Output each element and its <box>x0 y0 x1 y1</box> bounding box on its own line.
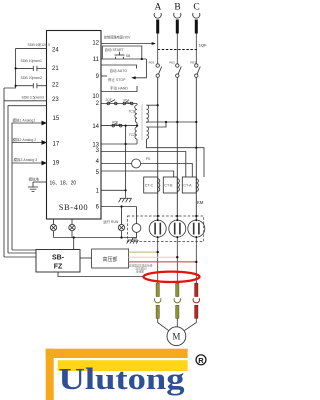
capacitor pwm2 <box>16 85 34 87</box>
svg-text:R06: R06 <box>112 120 118 124</box>
box high-voltage unit <box>92 249 129 268</box>
wire HV yellow to phase B <box>129 256 178 258</box>
lamp out1 under SB-400 <box>50 219 56 238</box>
wire outer vertical 1 <box>3 88 5 257</box>
wire jog bus to outer vertical <box>4 86 16 88</box>
svg-text:模拟3 Analog 3: 模拟3 Analog 3 <box>14 157 38 162</box>
fuse element phase C (red) <box>193 283 199 318</box>
main controller box SB-400 <box>47 31 102 220</box>
svg-text:CT-B: CT-B <box>164 183 173 187</box>
wire analog1 line <box>12 123 47 250</box>
svg-text:Ulutong: Ulutong <box>59 361 186 396</box>
svg-text:接线图: 接线图 <box>136 269 144 273</box>
breaker pole labels <box>149 60 197 64</box>
wire down to SB-FZ <box>73 238 75 250</box>
svg-text:运行 RUN: 运行 RUN <box>103 219 119 224</box>
circuit schematic with company logo <box>0 0 208 400</box>
svg-text:模拟2 Analog 2: 模拟2 Analog 2 <box>13 137 37 142</box>
contactor pole B <box>169 220 186 237</box>
box SB-FZ <box>36 250 80 273</box>
tiny annotation text <box>129 264 153 274</box>
svg-text:控制回路电源220V: 控制回路电源220V <box>104 35 131 40</box>
wire pin9 stub <box>101 75 107 77</box>
svg-text:11: 11 <box>93 57 100 63</box>
CT-C box <box>144 177 160 193</box>
transformer core <box>141 104 142 140</box>
breaker 2QF <box>107 100 117 105</box>
fuse bar A <box>156 20 159 34</box>
logo orange F vertical bar <box>46 349 54 400</box>
terminal clip A <box>154 13 161 18</box>
svg-text:14: 14 <box>92 124 99 130</box>
arrow pin12 <box>152 42 156 45</box>
fuse element phase A (olive) <box>155 283 161 318</box>
wire SB-FZ bottom run <box>58 272 143 277</box>
capacitor pwm1 <box>16 67 34 69</box>
wire pin2 line <box>101 103 137 105</box>
PS indicator <box>132 159 141 168</box>
fuse bar C <box>195 20 198 34</box>
wire SB-FZ to HV box <box>80 257 92 259</box>
svg-text:R03: R03 <box>190 60 196 64</box>
wire auto line <box>101 65 137 69</box>
wire pin13 line <box>101 143 137 145</box>
wire pin6 line <box>101 206 137 208</box>
svg-text:CT-A: CT-A <box>183 183 192 187</box>
wire down to KM coil <box>136 207 138 224</box>
breaker pole A <box>156 64 162 78</box>
svg-text:1QF: 1QF <box>199 43 207 48</box>
wire HV yellow-green to phase A <box>129 251 158 253</box>
arrow analog3 <box>42 161 48 166</box>
phase lines below contactor <box>158 237 197 283</box>
transformer TC2 <box>135 126 149 144</box>
svg-text:模拟1 Analog1: 模拟1 Analog1 <box>13 117 36 122</box>
svg-text:自动 AUTO: 自动 AUTO <box>110 68 128 73</box>
fuse R06 <box>112 124 122 127</box>
contactor KM dashed box <box>128 216 204 242</box>
svg-text:SB: SB <box>126 54 131 58</box>
fuse bar B <box>176 20 179 34</box>
svg-text:R03: R03 <box>149 60 155 64</box>
arrow analog1 <box>42 121 48 126</box>
wire pin14 line <box>101 125 137 127</box>
wire down to run lamp <box>121 207 123 225</box>
pin numbers left side <box>50 47 77 186</box>
wire TC1 secondary bottom <box>147 121 197 124</box>
motor M <box>167 327 186 346</box>
svg-text:自动 START: 自动 START <box>105 47 125 52</box>
phase C line main <box>195 77 197 220</box>
svg-text:17: 17 <box>53 141 60 147</box>
wire TC2 secondary bottom <box>147 139 205 177</box>
wire pin3 to CT-A <box>101 152 186 178</box>
wire lamp bus <box>54 237 137 239</box>
svg-text:10: 10 <box>92 94 99 100</box>
right mid labels <box>104 35 151 161</box>
contactor pole C <box>188 220 205 237</box>
wire hand line pin10 <box>101 86 137 92</box>
wire neutral vertical <box>125 126 127 191</box>
svg-text:R02: R02 <box>169 60 175 64</box>
start button callout rectangle <box>102 46 142 59</box>
svg-text:SDB 20pwm2: SDB 20pwm2 <box>21 76 42 80</box>
transformer TC1 <box>135 104 149 126</box>
svg-text:C: C <box>193 3 199 13</box>
svg-text:SDB 10pwm1: SDB 10pwm1 <box>21 59 42 63</box>
svg-text:PS: PS <box>146 157 151 161</box>
svg-text:19: 19 <box>53 161 60 167</box>
wire TC2 secondary top <box>147 122 167 127</box>
terminal clip B <box>174 13 181 18</box>
logo orange top bar <box>46 349 188 358</box>
wire selector to stop arrow <box>135 59 146 78</box>
fuse element phase B (olive) <box>174 283 180 318</box>
CT-B box <box>163 177 179 193</box>
phase A line main <box>157 77 159 220</box>
wire pin11 line <box>101 58 146 60</box>
breaker pole C <box>195 64 201 78</box>
svg-text:SDB 3.5pwm3: SDB 3.5pwm3 <box>22 96 44 100</box>
svg-text:CT-C: CT-C <box>145 183 154 187</box>
svg-text:TC2: TC2 <box>129 133 135 137</box>
fuse R04 <box>123 102 133 105</box>
svg-text:A: A <box>154 3 161 13</box>
phase B line main <box>176 77 178 220</box>
ground below KM coil <box>127 240 139 244</box>
svg-text:22: 22 <box>52 83 59 89</box>
svg-text:23: 23 <box>52 97 59 103</box>
svg-text:2QF: 2QF <box>106 98 112 102</box>
wire pin24 120V line <box>16 47 47 49</box>
registered trademark <box>196 355 206 365</box>
wire analog ground pin16-18-20 <box>33 181 47 183</box>
svg-text:手动 HAND: 手动 HAND <box>110 85 128 90</box>
svg-text:KM: KM <box>197 200 204 205</box>
wire analog2 line <box>12 142 47 144</box>
wire HV red to phase C <box>129 261 197 263</box>
ground pin1 <box>119 190 132 202</box>
svg-text:R: R <box>198 356 204 365</box>
breaker pole B <box>176 64 182 78</box>
phase A line upper <box>158 34 197 64</box>
svg-text:B: B <box>174 3 180 13</box>
breaker 1QF dashed trip line <box>158 49 199 51</box>
wire analog3 line <box>12 162 47 164</box>
arrow stop (selector) <box>131 76 135 79</box>
contactor pole A <box>149 220 166 237</box>
wire outer vertical 2 + enclosure top <box>8 106 47 253</box>
svg-text:FZ: FZ <box>54 264 63 271</box>
CT labels <box>145 183 192 187</box>
svg-text:高压部: 高压部 <box>102 256 117 263</box>
wire pin12 control power <box>101 43 155 45</box>
logo yellow bar <box>58 360 188 371</box>
lamp out2 under SB-400 <box>69 219 75 238</box>
wire stubs into SB-FZ <box>4 256 36 258</box>
svg-text:24: 24 <box>52 47 59 53</box>
wire pin4 line to PS <box>101 163 132 165</box>
svg-text:SB-400: SB-400 <box>59 202 89 212</box>
wire PS to CT-A <box>141 164 193 178</box>
pin numbers right side <box>92 41 99 211</box>
svg-text:15: 15 <box>53 116 60 122</box>
svg-text:21: 21 <box>52 66 59 72</box>
svg-text:R04: R04 <box>124 98 130 102</box>
svg-text:模拟地: 模拟地 <box>29 176 40 181</box>
svg-text:停止 STOP: 停止 STOP <box>108 77 126 82</box>
wire pin5 to CT-B <box>101 171 174 177</box>
left tiny labels <box>13 42 51 181</box>
arrow analog2 <box>42 140 48 145</box>
pushbutton SB <box>115 54 125 56</box>
CT-A box <box>182 177 198 193</box>
svg-text:SB-: SB- <box>52 255 65 262</box>
svg-text:M: M <box>172 332 180 342</box>
KM coil circle <box>132 224 141 240</box>
wire left bus <box>15 48 17 85</box>
terminal clip C <box>193 13 200 18</box>
wire pin1 line <box>101 189 126 191</box>
svg-text:SDB 6米120 V: SDB 6米120 V <box>28 42 51 47</box>
wires to motor <box>158 318 197 330</box>
lamp RUN <box>118 224 124 237</box>
svg-text:12: 12 <box>92 41 99 47</box>
phase labels A B C <box>154 3 199 13</box>
wire pin23 <box>4 100 47 102</box>
red highlight ellipse <box>144 272 200 282</box>
wire TC1 secondary top to phase A <box>147 105 205 177</box>
svg-text:TC1: TC1 <box>128 109 134 113</box>
ground analog <box>28 187 38 191</box>
svg-text:16、18、20: 16、18、20 <box>50 181 77 187</box>
